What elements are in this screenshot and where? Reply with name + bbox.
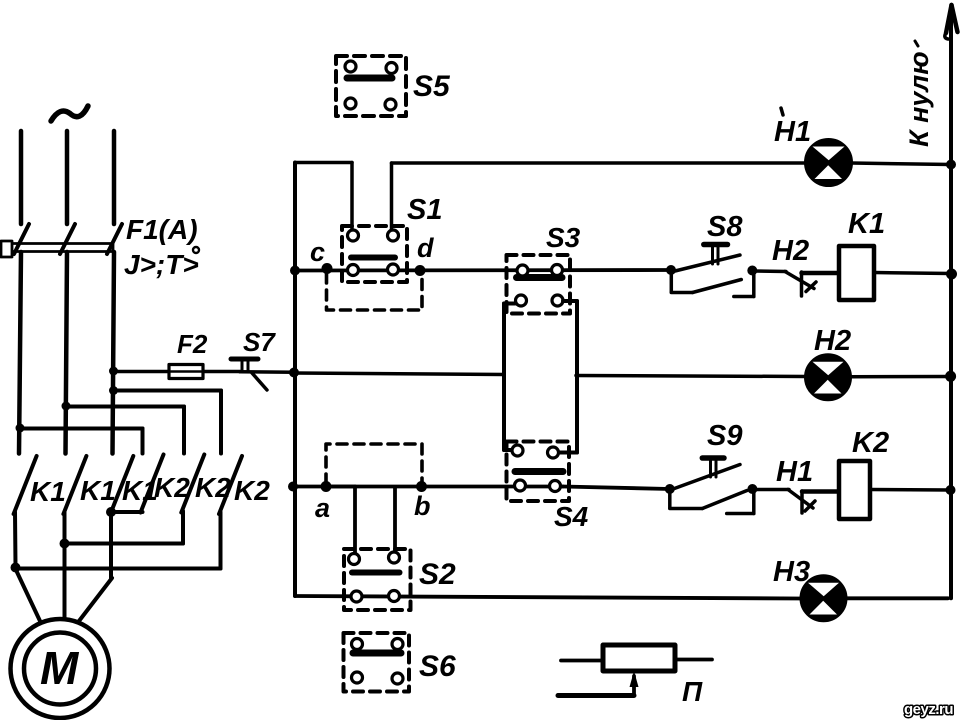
dashed linkage frame above S2 [326, 444, 422, 484]
svg-text:b: b [414, 491, 431, 521]
wire lamp H3 to right rail corner [846, 596, 949, 600]
svg-text:a: a [315, 493, 330, 523]
contact K1.1 [14, 456, 37, 514]
phase wire L3 lower [109, 252, 221, 454]
S1 lower terminal left [348, 265, 359, 276]
lamp H3 [802, 576, 846, 620]
wire contact K1.1 to K2.3 bottoms [11, 512, 221, 573]
tick above H1 [781, 108, 783, 115]
coil K1 [839, 246, 874, 300]
right rail (K nulyu) [945, 8, 957, 598]
contact K2.3 [219, 456, 242, 514]
svg-text:M: M [40, 642, 80, 694]
circuit breaker F1 [1, 224, 122, 257]
phase wire L2 upper [65, 131, 70, 224]
switch S7 [231, 359, 295, 390]
wire b to S2 [393, 488, 397, 553]
svg-text:K2: K2 [852, 427, 889, 459]
motor M [11, 619, 110, 718]
svg-text:H1: H1 [776, 456, 813, 488]
S1 lower terminal right [388, 264, 399, 275]
svg-text:S6: S6 [419, 650, 456, 683]
pushbutton S9 [665, 458, 758, 514]
lamp H1 [806, 140, 851, 185]
lamp H2 [806, 355, 850, 399]
wire coil K2 to right rail [870, 488, 950, 492]
wire S1 left riser [295, 163, 352, 231]
wire contact K1.3 to K2.1 bottoms [106, 507, 143, 578]
contact K2.1 [141, 455, 164, 513]
wire S1 right riser to lamp H1 line [392, 163, 809, 230]
bottom row wire (H3 lamp line) [295, 596, 801, 599]
svg-text:F1(A): F1(A) [126, 214, 198, 245]
control row3 wire right part [576, 376, 806, 377]
wire S8 to contact H2 [754, 269, 786, 273]
wire to motor right [79, 578, 112, 621]
svg-text:F2: F2 [177, 329, 208, 359]
svg-text:K1: K1 [30, 476, 66, 507]
svg-text:H1: H1 [774, 116, 811, 148]
svg-text:S9: S9 [707, 420, 742, 452]
svg-text:H3: H3 [773, 556, 810, 588]
wire lamp H1 to right rail [851, 163, 951, 165]
control row4 wire (a-b line) [293, 485, 563, 489]
wire contact K1.2 to K2.2 bottoms [60, 511, 184, 622]
degree mark over T [193, 247, 199, 253]
svg-text:К нулю: К нулю [904, 51, 934, 147]
AC supply tilde symbol [51, 106, 88, 121]
svg-text:J>;T>: J>;T> [124, 249, 199, 280]
switch S2 [344, 549, 411, 610]
svg-text:K2: K2 [234, 475, 270, 506]
contact K2.2 [181, 455, 204, 513]
svg-text:S1: S1 [407, 194, 442, 226]
phase wire L1 lower [16, 252, 143, 454]
wire S4 to S9 [563, 487, 670, 490]
svg-text:H2: H2 [814, 325, 851, 357]
arrow head on right rail [945, 5, 958, 39]
S4 lower terminal left [515, 480, 526, 491]
contact K1.3 [110, 456, 133, 514]
svg-text:П: П [682, 676, 703, 707]
switch S1 [342, 226, 407, 282]
linkage wire S3 to S4 right [560, 301, 577, 453]
switch S5 [336, 56, 406, 116]
pushbutton S8 [666, 245, 757, 297]
svg-text:K1: K1 [80, 475, 116, 506]
wire a to S2 [326, 487, 355, 555]
svg-text:S2: S2 [419, 558, 456, 591]
rheostat P [558, 645, 712, 696]
control row2 wire (c-d line) [295, 268, 671, 272]
fuse F2 [169, 365, 203, 379]
svg-text:S3: S3 [546, 222, 581, 253]
phase wire L3 upper [112, 131, 117, 224]
node a [315, 481, 332, 523]
contact K1.2 [63, 456, 86, 514]
wire coil K1 to right rail [874, 273, 951, 274]
coil K2 [839, 461, 870, 519]
S4 lower terminal right [550, 481, 561, 492]
svg-text:d: d [417, 233, 434, 263]
control tap wire to fuse F2 [109, 367, 240, 376]
linkage wire S3 to S4 left [504, 304, 515, 451]
svg-text:geyz.ru: geyz.ru [904, 701, 953, 718]
NC contact H2 [785, 272, 839, 297]
svg-text:K1: K1 [848, 208, 885, 240]
svg-text:S8: S8 [707, 211, 743, 243]
dashed linkage frame below S1 [327, 273, 423, 310]
svg-text:S4: S4 [554, 501, 589, 532]
control row3 wire (H2 lamp line) left part [294, 373, 504, 375]
wire S9 to contact H1 [754, 488, 789, 492]
phase wire L1 upper [19, 131, 24, 224]
svg-text:c: c [310, 237, 325, 267]
S2 lower terminal left [351, 591, 362, 602]
tick near K nulyu [915, 41, 918, 46]
wire to motor left [16, 570, 40, 621]
wire lamp H2 to right rail [850, 375, 951, 379]
switch S4 [507, 442, 570, 502]
switch S3 [507, 255, 571, 314]
left control rail [288, 163, 300, 597]
switch S6 [344, 633, 410, 692]
S2 lower terminal right [389, 591, 400, 602]
svg-text:S5: S5 [413, 70, 451, 103]
svg-text:H2: H2 [772, 235, 809, 267]
node d [415, 233, 435, 276]
phase wire L2 lower [62, 252, 185, 454]
node c [310, 237, 333, 274]
svg-text:S7: S7 [243, 327, 276, 357]
NC contact H1 [788, 490, 839, 514]
node b [414, 481, 431, 521]
